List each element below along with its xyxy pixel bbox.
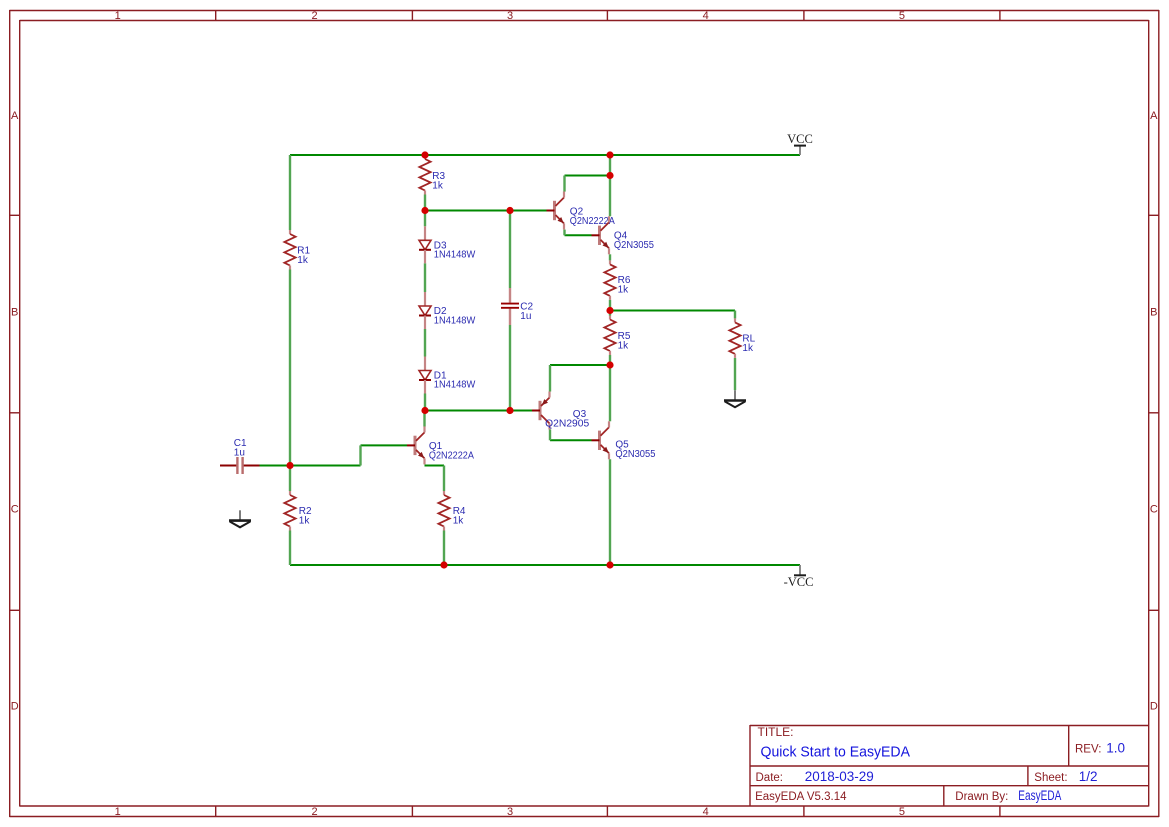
svg-text:1k: 1k [742, 343, 754, 354]
svg-text:EasyEDA V5.3.14: EasyEDA V5.3.14 [755, 791, 847, 803]
svg-text:A: A [1150, 110, 1158, 122]
svg-text:1k: 1k [618, 340, 630, 351]
wire Q2 emitter to Q4 base [565, 234, 592, 236]
svg-text:1N4148W: 1N4148W [434, 250, 476, 261]
wire R6 to node D [609, 300, 611, 311]
svg-text:2018-03-29: 2018-03-29 [805, 769, 874, 784]
node E R5/Q3 junction [606, 361, 613, 368]
svg-text:1N4148W: 1N4148W [434, 315, 476, 326]
svg-text:1k: 1k [432, 180, 444, 191]
wire Q2 collector drop [563, 176, 565, 192]
node Q2 collector junction [606, 172, 613, 179]
transistor Q2 (NPN) [547, 192, 616, 230]
wire node A to Q3 base [425, 410, 532, 412]
diode D3 [419, 226, 476, 263]
wire bottom -VCC rail [290, 564, 800, 566]
svg-text:B: B [11, 307, 18, 319]
svg-text:1/2: 1/2 [1079, 769, 1098, 784]
node right rail top junction [606, 151, 613, 158]
wire node B to C2 top [509, 211, 511, 289]
wire Q3 collector to Q5 base [550, 439, 592, 441]
svg-text:4: 4 [703, 806, 709, 818]
svg-text:1k: 1k [297, 255, 309, 266]
svg-text:-VCC: -VCC [784, 575, 814, 589]
wire R3 bottom to Q2 base [425, 210, 547, 212]
wire C1 to input node [260, 465, 361, 467]
transistor Q1 (NPN) [407, 426, 474, 464]
wire Q3 emitter riser [549, 365, 551, 392]
wire D2 to D1 [424, 329, 426, 357]
svg-text:1k: 1k [453, 516, 465, 527]
svg-text:B: B [1150, 307, 1157, 319]
svg-text:Q2N2905: Q2N2905 [545, 419, 589, 430]
ground near C1 [229, 510, 251, 527]
node B1 R3/D3 junction [421, 207, 428, 214]
diode D2 [419, 292, 476, 329]
svg-text:5: 5 [899, 806, 905, 818]
wire input node riser [359, 445, 361, 465]
svg-text:1: 1 [115, 806, 121, 818]
resistor R2 [284, 491, 312, 531]
svg-text:Q2N3055: Q2N3055 [615, 449, 655, 460]
svg-text:D: D [11, 701, 19, 713]
wire right rail to Q4 collector [609, 155, 611, 216]
svg-text:TITLE:: TITLE: [758, 725, 794, 739]
svg-text:Quick Start to EasyEDA: Quick Start to EasyEDA [761, 744, 911, 761]
wire RL top riser [734, 311, 736, 319]
wire R3 to diode D3 [424, 195, 426, 227]
node Q5 emitter bottom junction [606, 561, 613, 568]
resistor R4 [438, 491, 466, 531]
svg-text:1: 1 [115, 10, 121, 22]
wire Q4 emitter to R6 [609, 254, 611, 260]
wire C2 bottom to node C [509, 325, 511, 411]
svg-text:2: 2 [311, 10, 317, 22]
resistor R5 [604, 316, 630, 356]
wire node A to Q1 collector [423, 411, 425, 427]
diode D1 [419, 357, 476, 394]
svg-text:REV:: REV: [1075, 743, 1101, 755]
svg-text:EasyEDA: EasyEDA [1018, 788, 1061, 803]
wire RL bottom to ground [734, 358, 736, 390]
node input junction [286, 462, 293, 469]
wire R2 bottom to bottom rail [289, 531, 291, 566]
wire R6 bottom to RL [610, 310, 735, 312]
wire input node to R2 top [289, 466, 291, 492]
wire node E to Q5 collector [609, 365, 611, 421]
svg-text:VCC: VCC [787, 132, 813, 146]
wire Q3 emitter to R5 bottom [550, 364, 610, 366]
transistor Q5 (NPN) [592, 421, 656, 460]
svg-text:4: 4 [703, 10, 709, 22]
resistor R3 [419, 155, 445, 195]
svg-text:1.0: 1.0 [1106, 740, 1125, 755]
wire R4 bottom to bottom rail [443, 531, 445, 566]
svg-text:Q2N2222A: Q2N2222A [429, 450, 474, 461]
node R3 top rail junction [421, 151, 428, 158]
svg-text:A: A [11, 110, 19, 122]
ground below RL [724, 390, 746, 407]
resistor R1 [284, 230, 310, 270]
wire D1 to node A [424, 394, 426, 411]
title block [750, 725, 1149, 806]
svg-text:3: 3 [507, 10, 513, 22]
wire left rail upper [289, 155, 291, 230]
svg-text:Drawn By:: Drawn By: [955, 791, 1008, 803]
node A D1/Q1 junction [421, 407, 428, 414]
svg-text:2: 2 [311, 806, 317, 818]
capacitor C1 [220, 438, 260, 474]
svg-text:D: D [1150, 701, 1158, 713]
node C C2 bottom junction [506, 407, 513, 414]
power flag -VCC [784, 565, 814, 589]
capacitor C2 [501, 288, 534, 325]
svg-text:1k: 1k [618, 284, 630, 295]
transistor Q4 (NPN) [592, 216, 655, 254]
node R4 bottom junction [440, 561, 447, 568]
svg-text:3: 3 [507, 806, 513, 818]
svg-text:Date:: Date: [756, 772, 784, 784]
wire to Q1 base [361, 444, 408, 446]
resistor RL [729, 318, 755, 358]
svg-text:1u: 1u [234, 448, 245, 459]
node D R6/R5/RL junction [606, 307, 613, 314]
wire Q2 collector to rail [565, 175, 611, 177]
svg-text:C: C [1150, 503, 1158, 515]
svg-text:1u: 1u [520, 311, 531, 322]
wire Q1 emitter to R4 [425, 465, 445, 467]
wire node D to R5 [609, 311, 611, 316]
svg-text:Sheet:: Sheet: [1034, 772, 1067, 784]
wire top VCC rail [290, 154, 800, 156]
wire R5 to node E [609, 355, 611, 365]
svg-text:1k: 1k [299, 516, 311, 527]
wire D3 to D2 [424, 263, 426, 292]
wire Q2 emitter drop [563, 230, 565, 236]
transistor Q3 (PNP) [532, 392, 590, 430]
svg-text:C: C [11, 503, 19, 515]
wire Q3 collector drop [549, 430, 551, 441]
wire Q5 emitter to bottom rail [609, 459, 611, 565]
svg-text:1N4148W: 1N4148W [434, 380, 476, 391]
svg-text:5: 5 [899, 10, 905, 22]
wire R1 bottom to input node [289, 270, 291, 466]
resistor R6 [604, 260, 630, 300]
node C2 top junction [506, 207, 513, 214]
wire Q1 emitter drop to R4 [443, 466, 445, 492]
power flag VCC [787, 132, 813, 155]
svg-text:Q2N3055: Q2N3055 [614, 240, 654, 251]
